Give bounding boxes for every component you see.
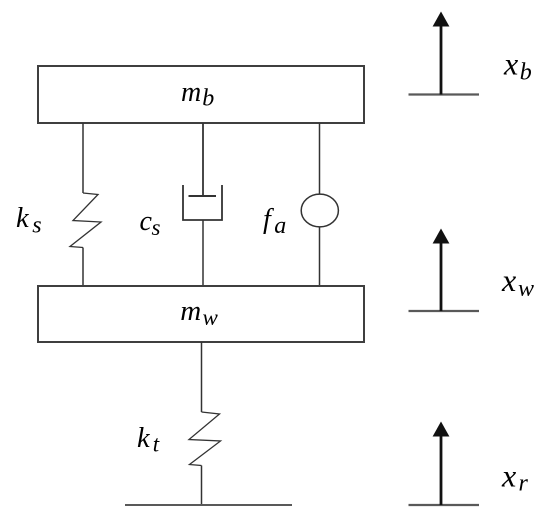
spring k_t [189, 412, 221, 466]
wire: actuator lower link [319, 227, 321, 286]
mass block m_b [38, 66, 364, 123]
svg-text:x: x [503, 46, 518, 82]
svg-text:w: w [518, 276, 534, 302]
spring k_s [70, 193, 101, 248]
ground line [125, 504, 292, 506]
svg-text:m: m [180, 295, 201, 327]
mass block m_w [38, 286, 364, 342]
wire: tire spring upper link [201, 342, 203, 412]
reference axis x_b : arrow [440, 24, 443, 95]
reference axis x_r : arrow [440, 434, 443, 505]
svg-text:t: t [153, 432, 160, 457]
damper c_s piston bar [189, 195, 217, 197]
svg-text:b: b [520, 60, 532, 86]
reference axis x_b : base line [409, 93, 480, 95]
wire: damper rod lower [202, 220, 204, 286]
wire: k_s lower link [82, 248, 84, 287]
wire: damper rod upper [202, 123, 204, 196]
reference axis x_w : base line [409, 310, 480, 312]
svg-text:s: s [32, 213, 41, 239]
wire: tire spring lower link [201, 466, 203, 506]
svg-text:b: b [202, 85, 214, 111]
reference axis x_r : base line [409, 504, 480, 506]
svg-text:m: m [181, 77, 201, 108]
svg-text:w: w [203, 305, 219, 330]
svg-text:s: s [152, 215, 161, 240]
svg-text:a: a [274, 213, 286, 239]
svg-text:k: k [16, 203, 30, 234]
svg-text:r: r [519, 471, 529, 497]
wire: k_s upper link [82, 123, 84, 193]
actuator f_a [301, 194, 338, 227]
svg-text:k: k [137, 423, 151, 454]
wire: actuator upper link [319, 123, 321, 194]
reference axis x_w : arrow [440, 241, 443, 311]
damper c_s cylinder [183, 185, 222, 220]
svg-text:x: x [501, 262, 516, 298]
svg-text:x: x [501, 458, 516, 494]
svg-text:f: f [263, 204, 274, 235]
